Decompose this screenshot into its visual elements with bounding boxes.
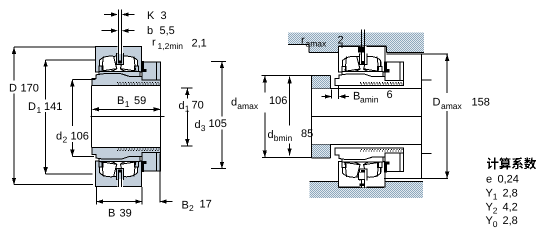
svg-text:1: 1 [37,105,42,115]
svg-text:B: B [182,200,189,212]
B amin dimension [331,90,333,99]
d3 dimension [211,60,226,62]
housing bottom band [310,182,339,198]
svg-text:2,8: 2,8 [503,215,518,227]
svg-text:r: r [301,35,305,47]
B1 dimension [92,108,160,110]
d amax dimension [262,75,312,77]
B2 dimension [159,154,161,203]
svg-text:2: 2 [338,35,344,47]
svg-text:0: 0 [493,219,498,229]
svg-text:39: 39 [120,208,132,220]
washer tab through housing top [361,29,363,46]
sleeve bore rectangle sides [91,85,93,147]
svg-text:b: b [147,25,153,37]
svg-text:0,24: 0,24 [498,174,519,186]
svg-text:bmin: bmin [274,133,293,143]
B dimension [95,187,97,205]
svg-text:d: d [268,129,274,141]
svg-text:amax: amax [441,101,463,111]
svg-text:B: B [117,95,124,107]
D amax dimension [387,53,449,55]
tab marks bottom [359,172,365,179]
svg-text:d: d [231,97,237,109]
d bmin dimension [289,77,291,126]
b dimension [102,30,112,32]
svg-text:amin: amin [360,95,379,105]
svg-text:3: 3 [201,123,206,133]
abutment collar bottom [311,145,330,158]
shaft [311,89,421,145]
abutment collar top [311,76,330,89]
svg-text:1: 1 [493,192,498,202]
bearing upper section (outline style) [335,46,403,86]
collar/shaft left face [310,76,312,158]
bearing + sleeve upper section [92,46,160,86]
svg-text:4,2: 4,2 [503,202,518,214]
svg-text:r: r [152,37,156,49]
svg-text:1,2min: 1,2min [158,41,184,51]
svg-text:d: d [179,100,185,112]
svg-text:D: D [9,83,17,95]
svg-text:2,8: 2,8 [503,188,518,200]
bearing + sleeve lower section (mirror) [92,148,160,188]
svg-text:d: d [195,119,201,131]
axis line [91,116,165,118]
K dimension [104,14,111,16]
svg-text:170: 170 [21,83,39,95]
svg-text:1: 1 [125,99,130,109]
svg-text:106: 106 [71,131,89,143]
svg-text:B: B [108,208,115,220]
svg-text:2: 2 [63,135,68,145]
svg-text:158: 158 [472,97,490,109]
svg-text:106: 106 [269,95,287,107]
svg-text:amax: amax [237,101,259,111]
svg-text:141: 141 [44,101,62,113]
axis [311,116,421,118]
svg-text:17: 17 [200,199,212,211]
svg-text:D: D [433,97,441,109]
svg-text:2,1: 2,1 [192,38,207,50]
svg-text:amax: amax [306,39,328,49]
D1 dimension [46,59,96,61]
svg-text:3: 3 [161,10,167,22]
svg-text:e: e [486,174,492,186]
housing top band [288,33,424,45]
svg-text:6: 6 [387,89,393,101]
svg-text:d: d [56,131,62,143]
svg-text:2: 2 [189,203,194,213]
svg-text:K: K [147,10,155,22]
svg-text:5,5: 5,5 [160,25,175,37]
svg-text:59: 59 [134,95,146,107]
svg-text:105: 105 [209,118,227,130]
svg-text:D: D [28,101,36,113]
bearing lower section [335,148,403,188]
d1 dimension [181,87,193,89]
svg-text:70: 70 [192,100,204,112]
d2 dimension [72,79,95,81]
svg-text:1: 1 [185,104,190,114]
svg-text:2: 2 [493,206,498,216]
washer tab lines above [117,10,119,47]
D dimension [14,46,95,48]
svg-text:85: 85 [301,128,313,140]
header 计算系数 (embedded outlines) [487,157,536,169]
